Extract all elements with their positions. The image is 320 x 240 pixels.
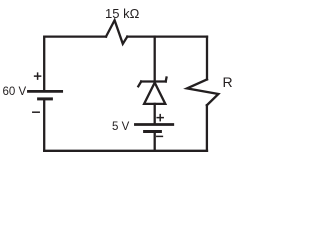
wire left rail top + top rail left segment (44, 37, 106, 91)
zener bar right bent tick (165, 78, 168, 82)
wire 5V battery to bottom rail (154, 132, 156, 151)
minus sign of B1 (33, 111, 39, 113)
resistor R zigzag (187, 79, 218, 105)
zener bar left bent tick (138, 82, 141, 87)
minus sign of B2 (157, 135, 163, 137)
plus sign of B2 (157, 115, 163, 121)
battery B2 5V short plate (145, 130, 161, 133)
bottom rail wire (44, 150, 207, 152)
label 15 kOhm (105, 6, 139, 21)
plus sign of B1 (35, 73, 41, 79)
zener diode D1 cathode bar (141, 80, 166, 82)
label 60 V (3, 86, 27, 98)
label R (223, 74, 233, 90)
wire right rail top (206, 37, 208, 80)
wire top rail right segment (127, 35, 207, 37)
resistor R1 15 kOhm zigzag (106, 20, 127, 44)
battery B1 60V long plate (28, 90, 61, 93)
zener diode D1 anode triangle (144, 83, 165, 104)
battery B1 60V short plate (39, 97, 52, 100)
wire zener to 5V battery (154, 104, 156, 123)
wire left rail bottom (43, 99, 45, 151)
wire right rail bottom (206, 105, 208, 151)
battery B2 5V long plate (135, 123, 172, 126)
wire zener branch from top rail (154, 37, 156, 81)
label 5 V (112, 121, 129, 133)
